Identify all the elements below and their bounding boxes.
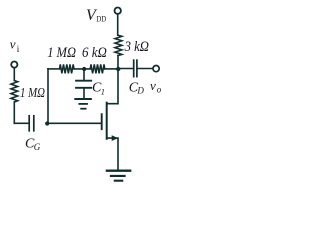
wire C1 stub upper bbox=[83, 69, 85, 80]
svg-text:6 kΩ: 6 kΩ bbox=[82, 45, 107, 61]
node gate junction dot bbox=[45, 121, 49, 125]
wire rail corner to R1M bbox=[48, 68, 60, 70]
svg-text:1 MΩ: 1 MΩ bbox=[20, 86, 45, 101]
terminal VDD bbox=[115, 8, 121, 14]
wire C1 stub lower bbox=[83, 88, 85, 98]
capacitor C1 bbox=[76, 80, 91, 82]
capacitor CG bbox=[28, 116, 30, 131]
transistor Q1 source lead bbox=[107, 138, 118, 170]
capacitor CD bbox=[133, 60, 135, 76]
svg-text:DD: DD bbox=[96, 14, 106, 24]
wire R6k to drain node bbox=[105, 68, 118, 70]
svg-text:1: 1 bbox=[101, 86, 105, 96]
transistor Q1 gate bar bbox=[101, 114, 103, 129]
svg-text:v: v bbox=[10, 37, 16, 52]
ground C1 bbox=[75, 99, 90, 109]
svg-text:G: G bbox=[34, 142, 41, 152]
resistor 1 MOhm horizontal bbox=[60, 64, 75, 73]
ground main bbox=[107, 171, 130, 181]
resistor 6 kOhm bbox=[90, 64, 105, 73]
terminal vo bbox=[153, 66, 159, 72]
svg-text:i: i bbox=[17, 44, 20, 54]
resistor 3 kOhm bbox=[115, 35, 122, 55]
resistor 1 MOhm vertical bbox=[11, 81, 18, 103]
svg-text:3 kΩ: 3 kΩ bbox=[124, 39, 149, 55]
wire CD to output bbox=[138, 68, 153, 70]
transistor Q1 source arrow bbox=[112, 135, 118, 141]
wire drain node to CD bbox=[118, 68, 133, 70]
wire bias line vertical bbox=[47, 69, 49, 123]
wire R1M to R6k bbox=[74, 68, 90, 70]
wire CG left lead bbox=[14, 122, 28, 124]
svg-text:D: D bbox=[136, 86, 144, 96]
wire drain node down and drain lead bbox=[107, 69, 118, 104]
wire R3k to drain node bbox=[117, 56, 119, 70]
wire vi branch vertical bbox=[13, 102, 15, 123]
wire gate lead bbox=[48, 122, 101, 124]
node C1 junction dot bbox=[82, 67, 86, 71]
wire vi to R1M bbox=[13, 68, 15, 80]
transistor Q1 channel bar bbox=[106, 103, 108, 139]
svg-text:o: o bbox=[157, 85, 162, 95]
node drain junction dot bbox=[116, 67, 120, 71]
terminal vi bbox=[11, 62, 17, 68]
svg-text:1 MΩ: 1 MΩ bbox=[47, 45, 76, 61]
svg-text:v: v bbox=[150, 78, 156, 93]
wire VDD to R3k bbox=[117, 14, 119, 35]
